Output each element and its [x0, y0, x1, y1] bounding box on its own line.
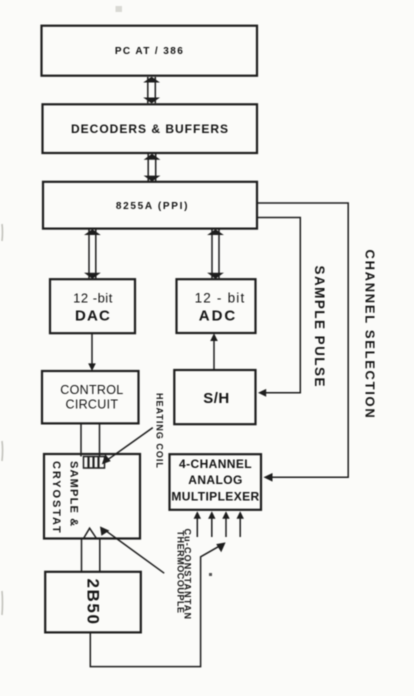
svg-text:SAMPLE PULSE: SAMPLE PULSE: [312, 266, 327, 388]
svg-text:DECODERS & BUFFERS: DECODERS & BUFFERS: [71, 122, 229, 136]
svg-text:DAC: DAC: [75, 308, 111, 325]
svg-text:CONTROL: CONTROL: [60, 383, 123, 397]
svg-text:S/H: S/H: [203, 390, 230, 407]
svg-text:CHANNEL SELECTION: CHANNEL SELECTION: [362, 250, 377, 420]
svg-text:12 - bit: 12 - bit: [195, 290, 246, 305]
svg-text:CRYOSTAT: CRYOSTAT: [50, 461, 62, 535]
svg-text:4-CHANNEL: 4-CHANNEL: [179, 457, 252, 471]
svg-text:THERMOCOUPLE: THERMOCOUPLE: [176, 531, 186, 614]
svg-text:ANALOG: ANALOG: [188, 473, 242, 487]
svg-text:ADC: ADC: [199, 308, 238, 325]
svg-text:HEATING COIL: HEATING COIL: [154, 393, 164, 469]
svg-text:SAMPLE &: SAMPLE &: [68, 461, 80, 527]
svg-text:8255A (PPI): 8255A (PPI): [116, 201, 189, 212]
svg-text:12 -bit: 12 -bit: [73, 290, 113, 305]
svg-text:2B50: 2B50: [84, 579, 103, 626]
svg-text:CIRCUIT: CIRCUIT: [66, 397, 119, 411]
svg-text:MULTIPLEXER: MULTIPLEXER: [171, 490, 259, 504]
svg-text:PC AT / 386: PC AT / 386: [115, 46, 184, 57]
